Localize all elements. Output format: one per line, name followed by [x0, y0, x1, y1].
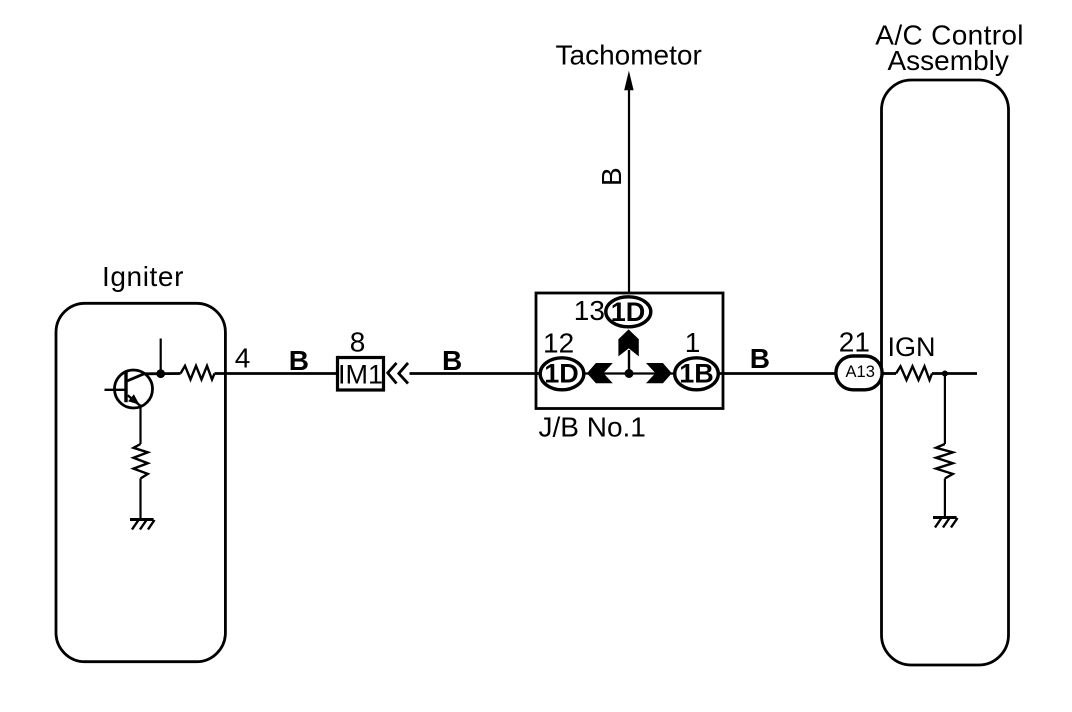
svg-text:B: B [750, 343, 770, 374]
svg-text:1: 1 [685, 327, 701, 358]
svg-text:4: 4 [235, 343, 251, 374]
svg-text:B: B [442, 345, 462, 376]
svg-text:1D: 1D [544, 358, 579, 388]
svg-text:IGN: IGN [888, 332, 936, 362]
svg-text:21: 21 [839, 326, 870, 357]
svg-text:13: 13 [574, 295, 605, 326]
svg-text:8: 8 [350, 326, 366, 357]
svg-text:Igniter: Igniter [102, 261, 184, 292]
svg-text:J/B No.1: J/B No.1 [539, 411, 646, 442]
svg-text:B: B [596, 167, 627, 186]
svg-text:Assembly: Assembly [888, 45, 1009, 76]
svg-text:1B: 1B [679, 358, 714, 388]
svg-text:1D: 1D [611, 297, 646, 327]
svg-text:A13: A13 [846, 363, 875, 381]
svg-text:Tachometor: Tachometor [556, 40, 702, 71]
svg-text:IM1: IM1 [338, 359, 383, 389]
svg-text:B: B [289, 345, 309, 376]
svg-text:12: 12 [543, 327, 574, 358]
